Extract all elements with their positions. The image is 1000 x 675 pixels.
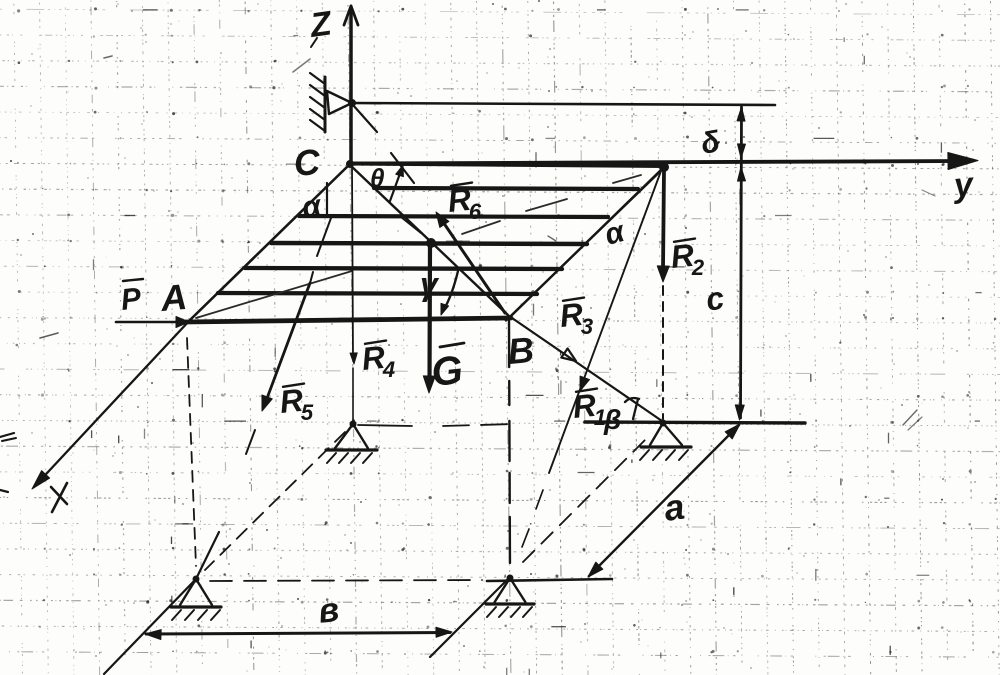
svg-text:5: 5 <box>301 400 314 425</box>
svg-text:G: G <box>429 348 465 395</box>
svg-text:6: 6 <box>469 199 482 224</box>
svg-text:2: 2 <box>691 255 705 280</box>
svg-text:B: B <box>506 329 535 372</box>
svg-text:A: A <box>158 276 188 319</box>
svg-text:β: β <box>603 404 621 435</box>
svg-text:3: 3 <box>581 314 593 339</box>
svg-text:4: 4 <box>382 357 395 382</box>
svg-text:θ: θ <box>370 163 385 193</box>
svg-text:C: C <box>292 141 322 184</box>
